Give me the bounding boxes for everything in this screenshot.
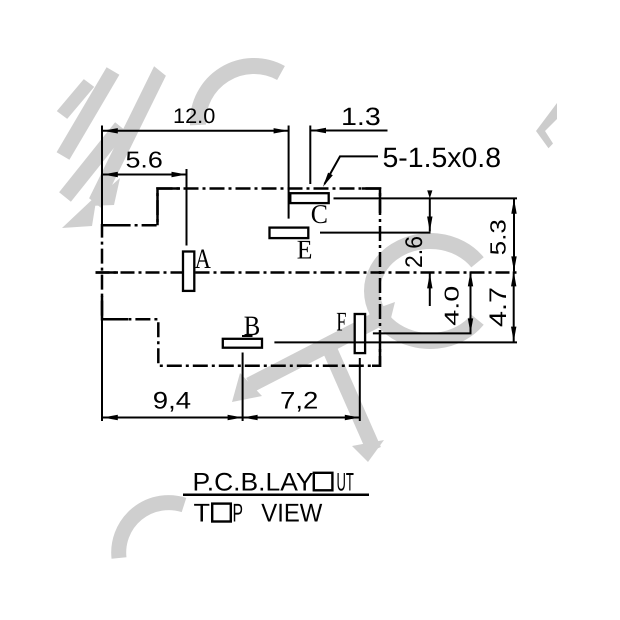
watermark letter T (center-bottom)	[232, 302, 395, 462]
svg-text:4.0: 4.0	[442, 286, 464, 326]
outline step edge left lower	[102, 296, 128, 319]
extension line 5.6 (pad A center)	[186, 169, 188, 246]
dimension 7.2 line	[243, 417, 360, 419]
dimension 5.6 line	[103, 174, 187, 176]
pad A	[183, 252, 194, 291]
dimension 1.3 line	[311, 130, 388, 132]
svg-text:T: T	[194, 500, 211, 528]
svg-text:B: B	[244, 311, 260, 342]
outline corner top-left step	[158, 189, 181, 226]
pad E center line	[320, 232, 431, 234]
svg-text:E: E	[297, 235, 313, 265]
svg-text:VIEW: VIEW	[261, 500, 323, 528]
svg-text:1.3: 1.3	[341, 103, 381, 131]
leader line 5-1.5x0.8	[325, 156, 379, 184]
svg-text:4.7: 4.7	[485, 287, 512, 327]
extension line 12.0 right (to pad E)	[288, 126, 290, 219]
svg-text:5.6: 5.6	[126, 147, 163, 173]
title underline	[183, 493, 369, 496]
dimension 2.6 small arrow above pad C line	[427, 190, 432, 198]
extension line left upper (x=103)	[101, 126, 103, 226]
extension line left lower (x=103)	[101, 319, 103, 421]
dimension 4.0 line	[470, 271, 472, 333]
dimension 2.6 line	[429, 198, 431, 231]
title square O	[314, 473, 333, 491]
pad B extension line (bottom)	[242, 353, 244, 422]
pad E	[270, 228, 309, 239]
svg-text:5.3: 5.3	[485, 219, 510, 255]
svg-text:9,4: 9,4	[153, 388, 191, 415]
pad C	[290, 193, 328, 203]
outline corner top-right	[362, 189, 380, 214]
pad F center line	[373, 332, 472, 334]
pad F	[355, 314, 365, 353]
outline step edge left upper	[102, 224, 125, 227]
watermark chevron (right)	[536, 103, 557, 148]
subtitle square O	[212, 504, 231, 522]
svg-text:UT: UT	[337, 468, 354, 496]
dimension 5.3 line	[513, 199, 515, 272]
svg-text:P: P	[233, 500, 244, 528]
dimension 9.4 line	[103, 417, 243, 419]
svg-text:P.C.B.LAY: P.C.B.LAY	[193, 468, 314, 496]
svg-text:2.6: 2.6	[401, 236, 428, 268]
svg-text:12.0: 12.0	[173, 105, 215, 128]
pad B	[223, 339, 262, 348]
svg-text:7,2: 7,2	[280, 388, 318, 415]
watermark arc (top, part of letter C)	[198, 66, 281, 125]
component outline (dash-dot)	[102, 189, 380, 366]
centerline	[96, 271, 518, 274]
pad B label underline	[242, 335, 253, 337]
arrow at centerline (x=429.8)	[429, 273, 431, 306]
pad C center line	[334, 197, 518, 199]
dimension 12.0 line	[103, 130, 289, 132]
watermark letter C (center)	[372, 241, 477, 341]
pad B center line	[274, 341, 517, 343]
svg-text:5-1.5x0.8: 5-1.5x0.8	[383, 142, 502, 173]
watermark arc (bottom-left, part of letter C)	[119, 503, 184, 558]
svg-text:A: A	[195, 244, 212, 275]
dimension 4.7 line	[513, 271, 515, 341]
centerline solid left start	[96, 271, 119, 274]
svg-text:C: C	[311, 199, 328, 229]
outline corner bottom-right	[372, 345, 380, 366]
svg-text:F: F	[336, 307, 346, 337]
extension line 1.3 (pad C center)	[309, 126, 311, 185]
watermark stripes (top-left)	[57, 66, 166, 228]
pad F extension line (bottom)	[359, 358, 361, 421]
